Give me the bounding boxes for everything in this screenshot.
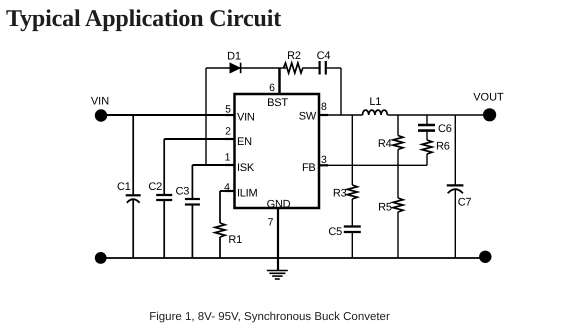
wire R5 to bus: [397, 212, 399, 258]
svg-text:R6: R6: [436, 140, 450, 152]
node bottom-right terminal: [479, 251, 491, 263]
wire ILIM down to R1: [219, 191, 221, 223]
wire R1 to bus: [219, 237, 221, 258]
wire top rail D1 to R2: [241, 67, 287, 69]
ground: [267, 271, 288, 280]
wire C1 branch lower: [132, 199, 134, 258]
wire C2 branch upper: [163, 139, 165, 194]
svg-text:2: 2: [225, 126, 231, 138]
wire EN to C2: [164, 138, 234, 140]
wire R3 to C5: [351, 199, 353, 226]
svg-text:8: 8: [321, 101, 327, 113]
wire VIN rail: [101, 114, 234, 116]
inductor L1: [363, 110, 388, 115]
svg-text:VIN: VIN: [237, 112, 255, 124]
resistor R4: [393, 136, 403, 150]
wire VOUT down to C7: [454, 115, 456, 185]
svg-text:C2: C2: [148, 181, 162, 193]
svg-text:EN: EN: [237, 136, 252, 148]
svg-text:7: 7: [268, 217, 274, 229]
resistor R3: [347, 185, 357, 199]
wire top rail left of D1: [206, 67, 230, 69]
svg-text:C1: C1: [117, 181, 131, 193]
svg-text:C4: C4: [317, 50, 331, 62]
wire R6 to FB: [426, 154, 428, 165]
wire L1 to VOUT: [388, 114, 490, 116]
diode D1: [230, 63, 241, 73]
capacitor C7 polarized: [447, 185, 464, 193]
svg-text:VIN: VIN: [91, 96, 109, 108]
wire C3 branch upper: [191, 165, 193, 198]
wire R2 to C4: [302, 67, 318, 69]
svg-text:C6: C6: [438, 123, 452, 135]
wire C6 to R6: [426, 131, 428, 140]
wire SW to L1: [319, 114, 363, 116]
capacitor C3: [185, 199, 200, 205]
pin stubs left: [225, 115, 328, 191]
pin 6 BST stub: [278, 68, 281, 94]
svg-text:C7: C7: [458, 196, 472, 208]
svg-text:5: 5: [225, 104, 231, 116]
svg-text:R4: R4: [378, 138, 392, 150]
resistor R2: [284, 63, 303, 73]
node VOUT terminal: [483, 108, 496, 121]
wire C2 branch lower: [163, 201, 165, 258]
svg-text:FB: FB: [302, 162, 316, 174]
svg-text:R1: R1: [228, 234, 242, 246]
svg-text:3: 3: [321, 154, 327, 166]
svg-text:GND: GND: [267, 199, 291, 211]
svg-text:SW: SW: [299, 111, 317, 123]
resistor R1: [215, 223, 225, 237]
wire FB rail: [319, 164, 427, 166]
wire VOUT down to C6: [426, 115, 428, 125]
wire bottom bus: [101, 257, 485, 259]
svg-text:BST: BST: [267, 97, 288, 109]
svg-text:R5: R5: [378, 202, 392, 214]
wire ISK to C3: [192, 164, 234, 166]
svg-text:R3: R3: [333, 187, 347, 199]
wire R4 to R5 through FB: [397, 150, 399, 199]
wire D1 anode vertical to ISK net: [205, 68, 207, 165]
svg-text:C5: C5: [328, 226, 342, 238]
node VIN terminal: [95, 109, 107, 121]
wire C5 to bus: [351, 233, 353, 259]
resistor R5: [393, 198, 403, 212]
resistor R6: [422, 140, 432, 154]
node bottom-left terminal: [95, 252, 107, 264]
capacitor C1 polarized: [126, 195, 141, 203]
capacitor C6: [418, 125, 435, 131]
wire C7 to bus: [454, 190, 456, 258]
svg-text:R2: R2: [287, 50, 301, 62]
wire C4 to corner: [327, 67, 341, 69]
svg-text:1: 1: [225, 152, 231, 164]
svg-text:4: 4: [224, 182, 230, 194]
wire BST branch vertical down to SW rail: [340, 68, 342, 115]
wire VOUT down to R4: [397, 115, 399, 136]
wire SW snubber down to R3: [351, 115, 353, 185]
wire ILIM stub: [220, 190, 234, 192]
svg-text:6: 6: [269, 82, 275, 94]
svg-text:D1: D1: [227, 51, 241, 63]
svg-text:VOUT: VOUT: [473, 92, 504, 104]
capacitor C5: [344, 227, 361, 233]
svg-text:ISK: ISK: [237, 162, 255, 174]
capacitor C4: [320, 61, 326, 75]
wire C3 branch lower: [191, 206, 193, 259]
svg-text:C3: C3: [176, 185, 190, 197]
op-amp U1 IC body: [235, 94, 320, 208]
title: [6, 5, 281, 34]
capacitor C2: [156, 195, 172, 200]
wire C1 branch upper: [132, 115, 134, 194]
caption: [0, 311, 539, 323]
svg-text:L1: L1: [369, 96, 381, 108]
pin 7 GND stub: [277, 208, 279, 271]
svg-text:ILIM: ILIM: [237, 188, 257, 200]
